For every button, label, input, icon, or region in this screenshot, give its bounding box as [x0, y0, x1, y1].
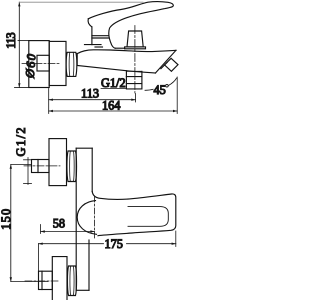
G1/2 tick top [24, 159, 32, 161]
extension line flange face [48, 89, 50, 114]
tailpiece facet [37, 160, 39, 173]
handle inner contour [128, 207, 168, 227]
bottom connection centerline [25, 280, 60, 282]
dim 113 vertical line [18, 2, 20, 87]
svg-text:113: 113 [81, 87, 99, 101]
top connection flange [49, 139, 67, 186]
bottom connection tailpiece [39, 271, 53, 289]
bottom tailpiece facet [41, 271, 43, 289]
centerline top view [22, 63, 60, 65]
svg-text:164: 164 [102, 99, 120, 113]
bottom connection nut [67, 266, 76, 296]
svg-text:45: 45 [154, 83, 166, 97]
body bottom edge [77, 54, 155, 73]
dim 150 [10, 165, 12, 282]
union nut rect [37, 55, 49, 71]
175 right extension [175, 231, 177, 247]
G1/2 tick bottom [24, 183, 32, 185]
diverter knob [127, 31, 143, 47]
cap joint line lower [92, 37, 109, 39]
dim 175 [39, 243, 176, 245]
cartridge centerline [94, 196, 96, 240]
spout end cap [165, 58, 179, 71]
top connection nut [67, 151, 77, 182]
175 left extension [38, 244, 40, 272]
bottom connection flange [52, 257, 67, 300]
wall flange escutcheon [29, 41, 49, 88]
shower outlet connector [126, 71, 141, 89]
cap step line [85, 44, 102, 46]
knob centerline [134, 26, 136, 94]
45 degree arc and label [145, 89, 153, 90]
svg-text:G1/2: G1/2 [14, 128, 28, 157]
svg-text:58: 58 [53, 217, 65, 231]
extension line outlet center [135, 94, 137, 103]
knob base [125, 47, 146, 49]
150 top extension [11, 164, 32, 166]
connector nut (barrel) [66, 52, 77, 76]
svg-text:175: 175 [105, 237, 123, 251]
handle plan outline [92, 192, 176, 236]
skirt base line [115, 47, 124, 49]
extension line spout tip [176, 77, 178, 114]
svg-text:150: 150 [0, 209, 13, 230]
valve block [49, 41, 66, 85]
body right end bevel cut [156, 50, 177, 73]
body outline top edge [77, 50, 176, 54]
G1/2 dim line vertical [27, 158, 29, 185]
body shoulder line [95, 46, 103, 48]
centerline top connection [24, 165, 60, 167]
extension line top (handle top to dim) [19, 1, 143, 3]
svg-text:G1/2: G1/2 [101, 76, 126, 90]
top connection tailpiece [32, 160, 50, 173]
dim 164 horizontal [49, 110, 178, 112]
dim 113 horizontal [49, 99, 136, 101]
body vertical band [75, 148, 77, 290]
extension line bottom (flange bottom extended left) [15, 87, 29, 89]
dim 58 [40, 225, 42, 234]
extension tick flange top [18, 40, 29, 42]
svg-text:113: 113 [4, 32, 18, 49]
spout collar line [161, 62, 167, 68]
handle lever [88, 2, 173, 49]
cap joint line upper [92, 35, 109, 37]
svg-text:Ø60: Ø60 [23, 54, 39, 80]
cartridge cap arc (plan) [77, 201, 96, 235]
neck left edge [91, 27, 93, 45]
150 bottom extension [11, 281, 48, 283]
handle butt curve [88, 19, 92, 27]
